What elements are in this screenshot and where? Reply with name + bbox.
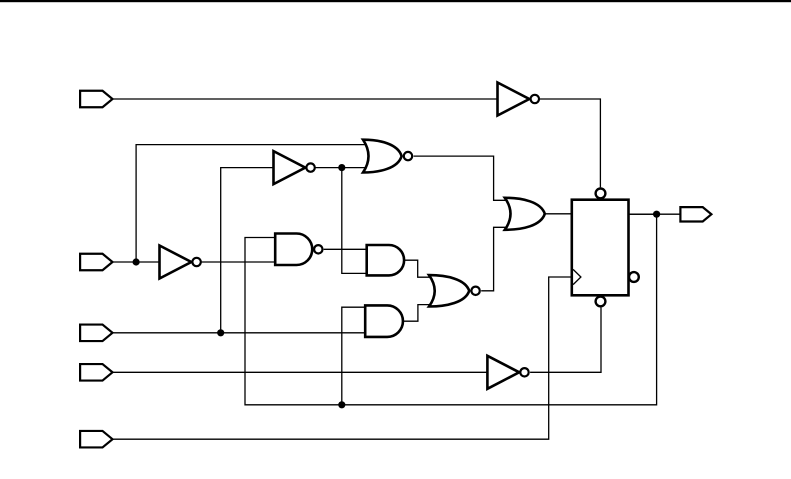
junction node B [133, 258, 140, 265]
and gate G2 [367, 245, 404, 275]
wire node B vertical to NOR G4 top input [136, 145, 375, 262]
input port P1 [80, 91, 112, 108]
inverter N5 [487, 356, 528, 389]
junction node Q [653, 211, 660, 218]
wire N2 output to NAND G1 bottom input [201, 261, 277, 263]
junction node C [217, 329, 224, 336]
input port P5 [80, 431, 112, 448]
nor gate G4 [363, 140, 412, 173]
wire NAND G1 output to AND G2 top input [324, 248, 368, 250]
wire P2 to N2 [113, 261, 160, 263]
or gate G6 [505, 198, 545, 230]
wire P3 to AND G3 bottom input [113, 332, 368, 334]
and gate G3 [365, 305, 403, 337]
input port P2 [80, 254, 112, 271]
top border rule [0, 0, 791, 2]
wire NOR G4 output to OR G6 top input [414, 156, 517, 200]
wire P4 to N5 [113, 371, 487, 373]
flip-flop clock edge triangle [573, 269, 581, 284]
wire P5 to flip-flop clock [113, 277, 572, 439]
flip-flop preset bubble [596, 189, 606, 199]
wire node D vertical to AND G2 bottom input [342, 168, 368, 274]
wire node E vertical to AND G3 top input [342, 307, 368, 405]
output port Q [680, 207, 711, 221]
wire OR G6 output to flip-flop D input [545, 213, 572, 215]
input port P3 [80, 325, 112, 342]
wire AND G3 output to NOR G5 bottom input [403, 305, 441, 322]
wire N5 output to flip-flop clear [530, 308, 601, 373]
input port P4 [80, 364, 112, 381]
nor gate G5 [429, 275, 480, 306]
wire AND G2 output to NOR G5 top input [404, 260, 441, 277]
junction node E [338, 401, 345, 408]
inverter N3 [274, 151, 315, 184]
wire node C vertical to N3 input [221, 168, 274, 333]
flip-flop clear bubble [596, 297, 606, 307]
inverter N1 [498, 83, 540, 116]
wire N3 output to NOR G4 bottom input [315, 167, 375, 169]
nand gate G1 [275, 234, 322, 266]
wire P1 to N1 [113, 98, 497, 100]
wire flip-flop Q to output port [629, 213, 681, 215]
flip-flop Qbar bubble [629, 272, 639, 282]
wire N1 output to flip-flop preset [539, 99, 600, 187]
wire NOR G5 output to OR G6 bottom input [481, 227, 517, 290]
flip-flop U1 [572, 200, 629, 296]
inverter N2 [160, 246, 201, 279]
wire feedback Q to NAND G1 top input [245, 214, 657, 405]
junction node D [338, 164, 345, 171]
